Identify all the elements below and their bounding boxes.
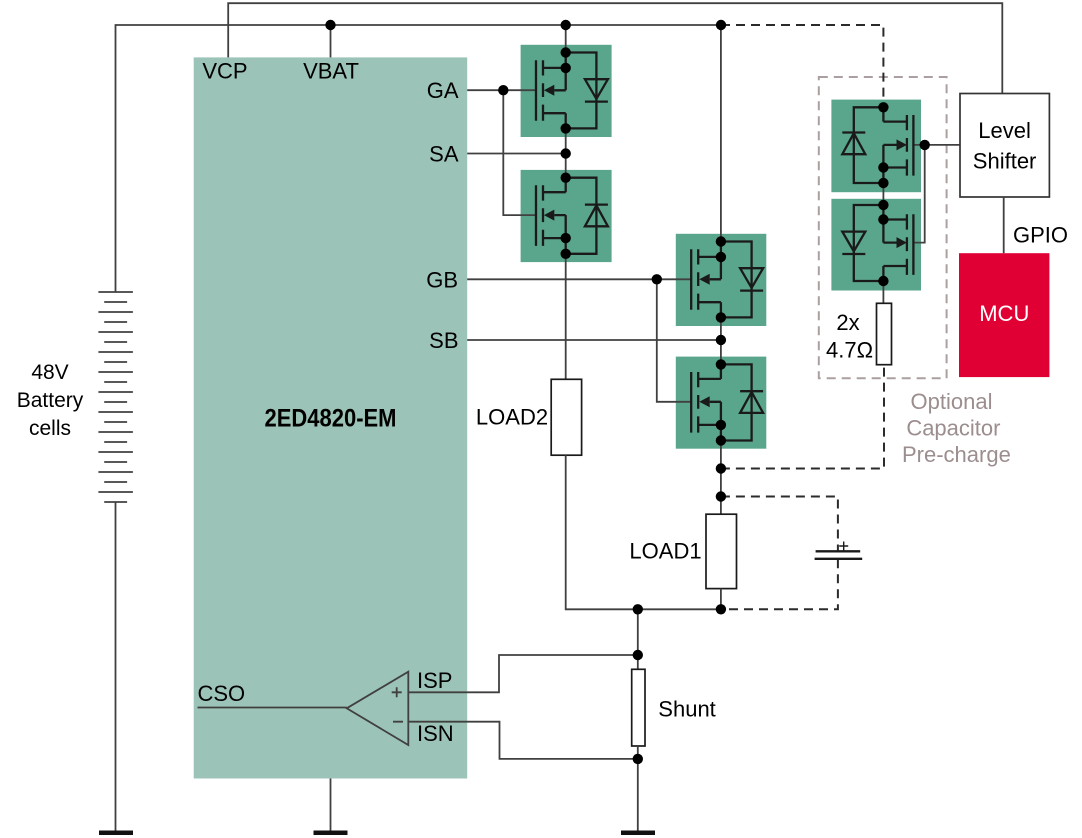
ground chip: [314, 831, 348, 836]
wire GB branch to Q4 gate: [657, 279, 691, 402]
pin label VCP: [202, 59, 247, 84]
wire SA to common node: [467, 153, 566, 155]
wire VBAT riser to chip: [330, 25, 332, 57]
transistor Q6 symbol: [842, 205, 913, 281]
svg-text:GB: GB: [426, 267, 458, 292]
wire Q5 Q6 gates to level shifter: [913, 144, 959, 146]
wire LOAD1 to bottom node: [720, 589, 722, 610]
IC U1 2ED4820-EM body: [194, 57, 468, 778]
svg-text:SB: SB: [429, 328, 458, 353]
pin label VBAT: [303, 59, 359, 84]
box level shifter: [960, 94, 1049, 198]
transistor Q5 symbol: [842, 107, 913, 183]
wire Q5 source to Q6 drain: [882, 183, 884, 205]
pin label CSO: [198, 681, 246, 706]
box MCU: [959, 253, 1049, 377]
label 2ED4820-EM: [265, 405, 397, 433]
pin label SA: [429, 142, 459, 167]
svg-text:CSO: CSO: [198, 681, 246, 706]
wire GA branch to Q2 gate: [503, 90, 536, 215]
wire dashed capacitor branch top: [721, 497, 838, 552]
resistor R1 2x 4.7ohm: [877, 303, 892, 364]
ground shunt: [621, 831, 655, 836]
pin label ISN: [417, 721, 454, 746]
battery BT1 48V cells: [98, 292, 132, 502]
wire GA to Q1 gate: [467, 89, 536, 91]
wire dashed pre-charge return: [721, 365, 884, 469]
label 48V battery cells: [17, 361, 84, 440]
label Shunt: [658, 696, 716, 721]
label 2x 4.7ohm: [826, 310, 873, 363]
label MCU: [979, 301, 1029, 326]
wire Q1 source to Q2 drain: [565, 128, 567, 177]
svg-text:48V: 48V: [31, 361, 68, 384]
wire rail to Q3 drain: [720, 25, 722, 242]
wire VBAT rail with battery drop: [116, 25, 722, 292]
label LOAD1: [629, 538, 701, 563]
svg-text:Level: Level: [978, 118, 1031, 143]
svg-text:LOAD1: LOAD1: [629, 538, 701, 563]
resistor LOAD2: [551, 379, 581, 455]
MOSFET Q1 box: [521, 45, 612, 137]
op-amp U2 current sense: [347, 672, 409, 745]
wire level shifter to MCU: [1003, 197, 1005, 253]
svg-text:GA: GA: [427, 78, 459, 103]
svg-text:Pre-charge: Pre-charge: [902, 442, 1011, 467]
pin label GA: [427, 78, 459, 103]
svg-text:2x: 2x: [836, 310, 859, 335]
label optional capacitor pre-charge: [902, 389, 1011, 467]
svg-text:LOAD2: LOAD2: [476, 405, 548, 430]
wire rail to Q1 drain: [565, 25, 567, 53]
wire shunt to ground: [637, 746, 639, 831]
label LOAD2: [476, 405, 548, 430]
wire Q3 source to Q4 drain: [720, 317, 722, 364]
transistor Q2 symbol: [536, 178, 608, 254]
label GPIO: [1013, 223, 1068, 248]
wire VCP rail from chip to Level Shifter: [228, 3, 1002, 93]
wire ISP sense: [408, 655, 638, 692]
wire dashed capacitor branch bottom: [721, 559, 838, 609]
wire ISN sense: [408, 722, 638, 759]
svg-text:ISN: ISN: [417, 721, 454, 746]
svg-text:Optional: Optional: [911, 389, 993, 414]
svg-text:Battery: Battery: [17, 389, 84, 412]
wire battery to ground: [115, 502, 117, 831]
wire Q6 gate riser: [913, 145, 924, 243]
transistor Q1 symbol: [536, 53, 608, 129]
MOSFET Q3 box: [676, 234, 767, 326]
resistor LOAD1: [706, 514, 737, 588]
wire SB to common node: [467, 339, 721, 341]
resistor Shunt: [632, 669, 645, 746]
svg-text:ISP: ISP: [417, 668, 452, 693]
wire dashed VBAT to pre-charge Q5: [721, 25, 883, 106]
svg-text:MCU: MCU: [979, 301, 1029, 326]
svg-text:cells: cells: [29, 417, 71, 440]
wire Q6 source to resistor: [882, 281, 884, 303]
svg-text:VCP: VCP: [202, 59, 247, 84]
dashed box optional pre-charge: [819, 77, 947, 378]
wire chip ground stub: [330, 779, 332, 832]
svg-text:2ED4820-EM: 2ED4820-EM: [265, 405, 397, 433]
pin label ISP: [417, 668, 452, 693]
MOSFET Q5 box: [831, 100, 921, 193]
svg-text:GPIO: GPIO: [1013, 223, 1068, 248]
pin label SB: [429, 328, 458, 353]
svg-text:Shunt: Shunt: [658, 696, 716, 721]
label Level Shifter: [973, 118, 1037, 173]
ground battery: [99, 831, 133, 836]
pin label GB: [426, 267, 458, 292]
transistor Q4 symbol: [691, 364, 763, 440]
MOSFET Q4 box: [676, 357, 767, 449]
svg-text:Capacitor: Capacitor: [906, 416, 1000, 441]
svg-text:SA: SA: [429, 142, 459, 167]
wire LOAD2 to bottom node: [566, 455, 721, 609]
MOSFET Q6 box: [831, 199, 921, 291]
svg-text:Shifter: Shifter: [973, 148, 1037, 173]
capacitor C1 polarized: [815, 542, 863, 559]
MOSFET Q2 box: [521, 170, 612, 262]
svg-text:4.7Ω: 4.7Ω: [826, 338, 873, 363]
wire CSO: [198, 707, 347, 709]
wire Q2 source to LOAD2: [565, 254, 567, 379]
svg-text:VBAT: VBAT: [303, 59, 359, 84]
wire GB to Q3 gate: [467, 278, 691, 280]
transistor Q3 symbol: [691, 242, 763, 318]
wire bottom node to shunt: [637, 609, 639, 669]
wire Q4 source to LOAD1: [720, 441, 722, 515]
